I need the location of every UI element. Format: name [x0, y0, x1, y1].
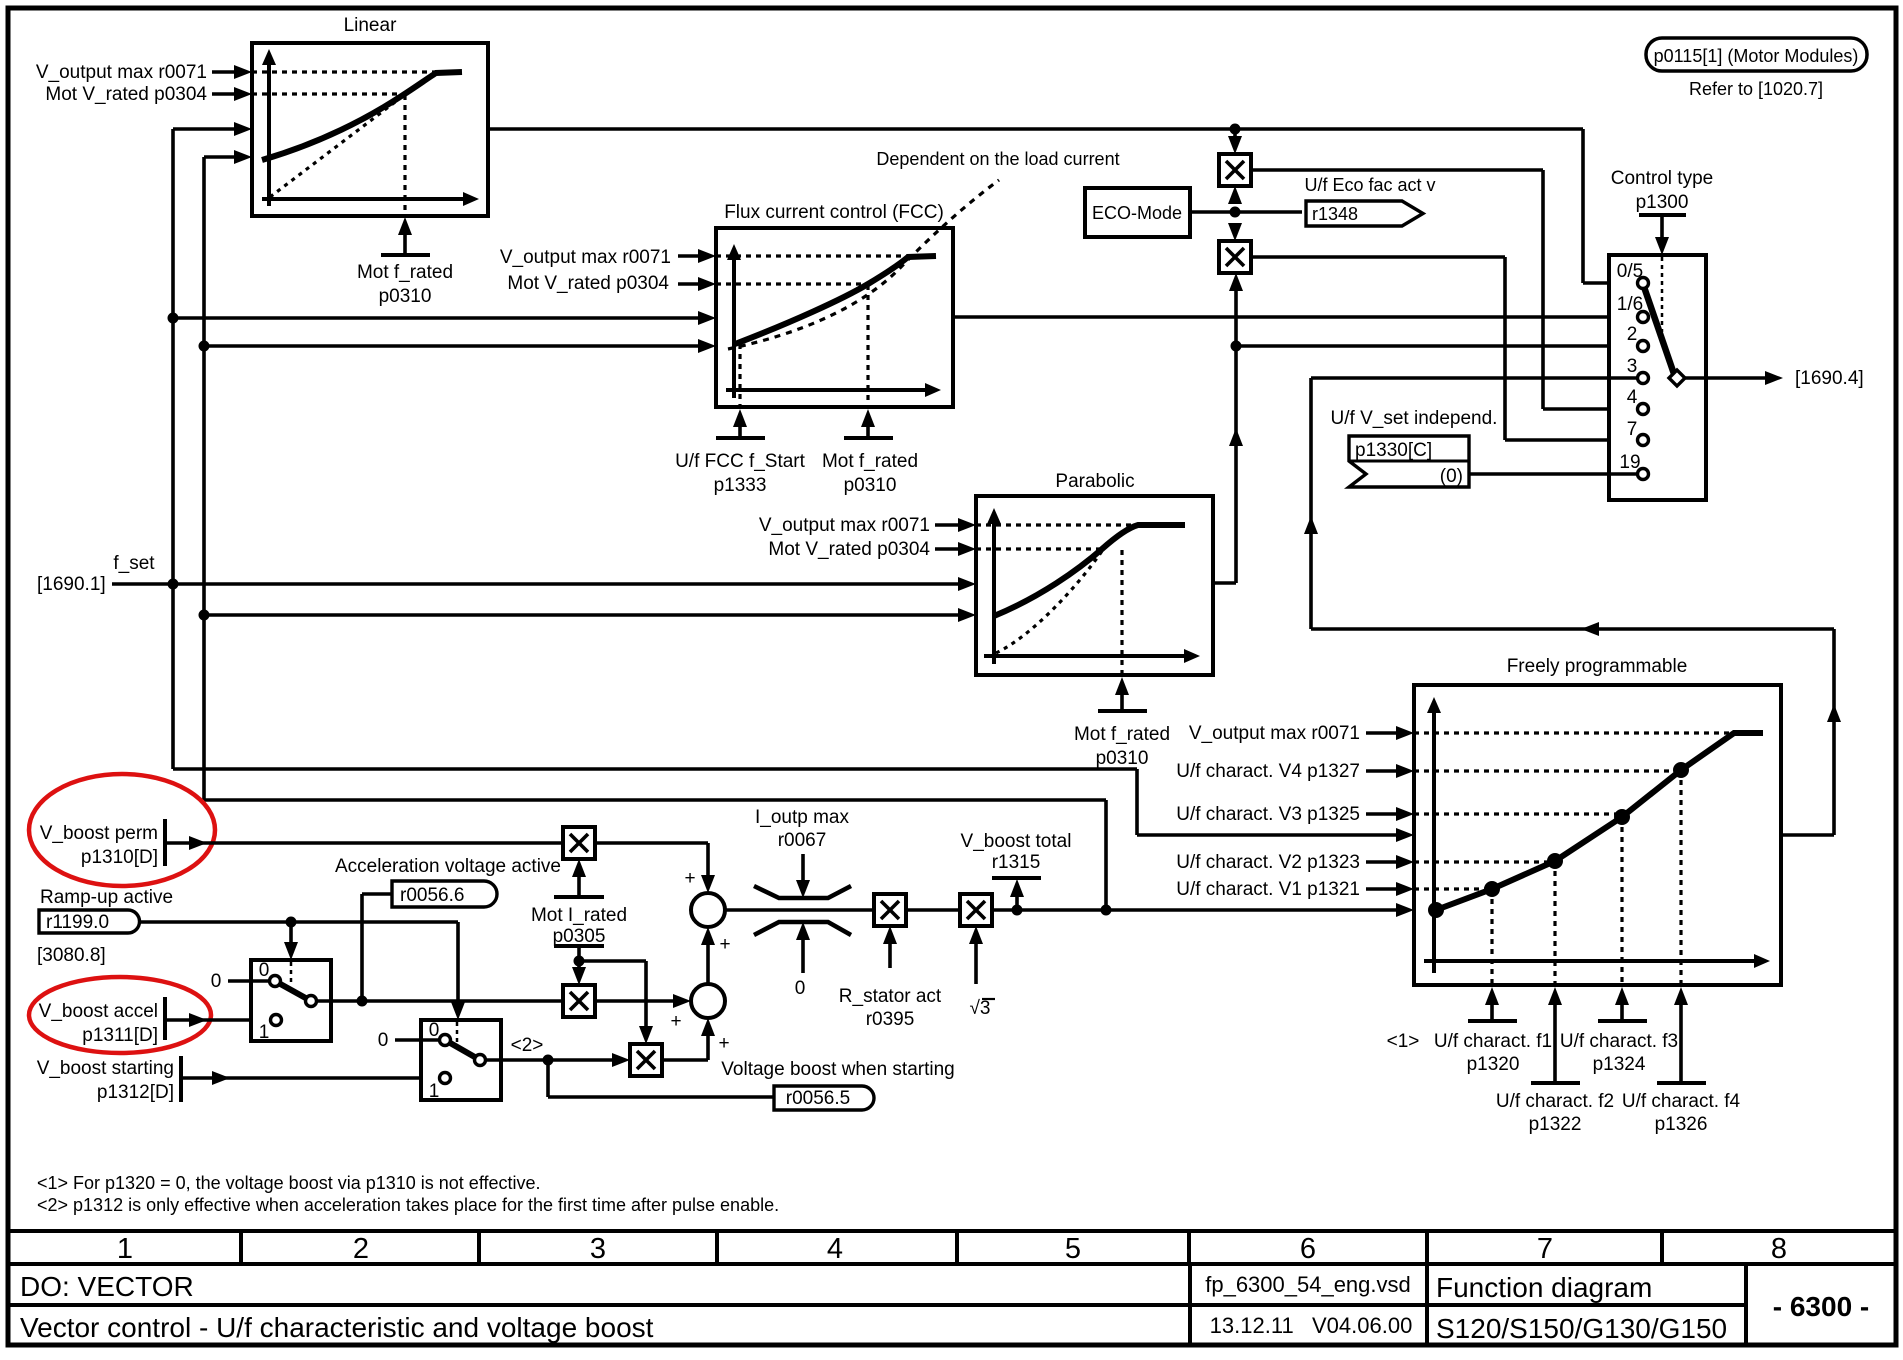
svg-text:r0056.6: r0056.6	[400, 885, 464, 906]
svg-text:U/f FCC f_Start: U/f FCC f_Start	[675, 451, 806, 472]
switch lever	[1643, 284, 1674, 374]
svg-text:Dependent on the load current: Dependent on the load current	[876, 149, 1119, 169]
Parabolic x-axis	[984, 654, 1187, 658]
svg-text:Mot f_rated: Mot f_rated	[822, 451, 918, 472]
svg-text:0: 0	[795, 978, 806, 999]
parameter Mot f_rated p0310 under FCC	[861, 409, 875, 427]
junction bus1 with f_set line	[168, 579, 178, 589]
parameter U/f FCC f_Start p1333	[733, 409, 747, 427]
wire V_boost total output	[906, 908, 960, 912]
svg-text:p1312[D]: p1312[D]	[97, 1082, 174, 1103]
svg-text:Mot V_rated p0304: Mot V_rated p0304	[45, 84, 207, 105]
svg-text:U/f charact. V4 p1327: U/f charact. V4 p1327	[1176, 761, 1360, 782]
svg-text:U/f charact. V2 p1323: U/f charact. V2 p1323	[1176, 852, 1360, 873]
svg-text:p1320: p1320	[1467, 1054, 1520, 1075]
FCC solid curve	[735, 256, 936, 344]
multiplier U2 (FCC x Eco)	[1219, 241, 1251, 273]
svg-text:r1199.0: r1199.0	[46, 912, 109, 933]
Parabolic dashed level p0304	[976, 547, 1100, 550]
parameter U/f charact. f1 p1320	[1485, 987, 1499, 1005]
svg-text:Mot f_rated: Mot f_rated	[1074, 724, 1170, 745]
wire ECO-Mode node	[1190, 210, 1302, 214]
svg-text:r1348: r1348	[1312, 204, 1358, 224]
svg-text:U/f V_set independ.: U/f V_set independ.	[1331, 408, 1498, 429]
svg-text:p1324: p1324	[1593, 1054, 1646, 1075]
svg-text:Mot I_rated: Mot I_rated	[531, 905, 627, 926]
svg-text:3: 3	[1627, 356, 1638, 377]
svg-text:4: 4	[827, 1233, 843, 1265]
svg-text:<1> For p1320 = 0, the voltage: <1> For p1320 = 0, the voltage boost via…	[37, 1173, 541, 1193]
junction bus1 to FCC	[168, 313, 178, 323]
svg-text:Ramp-up active: Ramp-up active	[40, 887, 173, 908]
wire bus2 down to V_boost output wire	[204, 798, 1106, 802]
wire bus1 to freely programmable input	[173, 767, 1137, 771]
junction bus2 to FCC	[199, 341, 209, 351]
Parabolic solid curve	[994, 525, 1185, 616]
svg-text:V_output max r0071: V_output max r0071	[1189, 723, 1360, 744]
svg-text:Mot V_rated p0304: Mot V_rated p0304	[507, 273, 669, 294]
svg-text:p1311[D]: p1311[D]	[82, 1025, 158, 1046]
svg-text:r0067: r0067	[778, 830, 827, 851]
svg-text:Acceleration voltage active: Acceleration voltage active	[335, 856, 561, 877]
S1 lever	[275, 981, 311, 1001]
svg-text:U/f Eco fac act v: U/f Eco fac act v	[1304, 175, 1435, 195]
Linear x-axis	[262, 197, 466, 201]
svg-text:p0310: p0310	[379, 286, 432, 307]
wire summer2 to summer1	[706, 943, 710, 984]
svg-text:[1690.4]: [1690.4]	[1795, 368, 1864, 389]
svg-text:0: 0	[429, 1020, 440, 1041]
parameter U/f charact. f3 p1324	[1615, 987, 1629, 1005]
svg-text:Voltage boost when starting: Voltage boost when starting	[721, 1059, 954, 1080]
multiplier X_R (R_stator act)	[874, 894, 906, 926]
svg-text:0: 0	[259, 960, 270, 981]
wire freely prog output feedback to switch contact 3	[1781, 833, 1834, 837]
FCC dashed level r0071	[716, 254, 907, 257]
wire bus2 to FCC input	[204, 344, 700, 348]
red highlight ellipse around V_boost perm	[29, 774, 215, 886]
svg-text:p0310: p0310	[1096, 748, 1149, 769]
Linear dashed vertical Mot f_rated	[403, 95, 406, 215]
svg-text:V_boost starting: V_boost starting	[37, 1058, 174, 1079]
parameter U/f charact. f2 p1322	[1548, 987, 1562, 1005]
wire p0305 to X_c	[579, 959, 646, 963]
wire bus1 f_set vertical distribution	[171, 129, 175, 769]
wire V_boost perm to multiplier	[165, 841, 563, 845]
svg-text:V_output max r0071: V_output max r0071	[36, 62, 207, 83]
wire V_boost starting to switch S2 input 1	[181, 1076, 440, 1080]
FCC dashed level p0304	[716, 282, 865, 285]
FCC x-axis	[726, 388, 928, 392]
wire S2 output	[486, 1058, 614, 1062]
svg-text:Refer to [1020.7]: Refer to [1020.7]	[1689, 79, 1823, 99]
svg-text:Mot V_rated p0304: Mot V_rated p0304	[768, 539, 930, 560]
svg-text:p1333: p1333	[714, 475, 767, 496]
svg-text:U/f charact. f4: U/f charact. f4	[1622, 1091, 1741, 1112]
parameter Mot I_rated p0305	[572, 859, 586, 877]
wire second line to Parabolic input	[204, 613, 960, 617]
svg-text:f_set: f_set	[113, 553, 155, 574]
svg-text:1: 1	[117, 1233, 133, 1265]
svg-text:U/f charact. f2: U/f charact. f2	[1496, 1091, 1614, 1112]
svg-text:+: +	[670, 1011, 681, 1032]
svg-text:Freely programmable: Freely programmable	[1507, 656, 1688, 677]
svg-text:Function diagram: Function diagram	[1436, 1272, 1652, 1303]
wire switch output to [1690.4]	[1685, 376, 1767, 380]
S2 lever	[445, 1040, 480, 1060]
svg-text:Vector control - U/f character: Vector control - U/f characteristic and …	[20, 1312, 654, 1343]
svg-text:p1300: p1300	[1636, 192, 1689, 213]
Parabolic dashed level r0071	[976, 523, 1137, 526]
svg-text:7: 7	[1627, 419, 1638, 440]
svg-text:- 6300 -: - 6300 -	[1773, 1291, 1870, 1322]
svg-text:fp_6300_54_eng.vsd: fp_6300_54_eng.vsd	[1205, 1272, 1411, 1297]
wire U2 output to switch contact 7 via corner	[1251, 255, 1505, 259]
svg-text:6: 6	[1300, 1233, 1316, 1265]
svg-text:0: 0	[211, 971, 222, 992]
svg-text:I_outp max: I_outp max	[755, 807, 849, 828]
Linear y-axis	[267, 63, 271, 206]
wire summer1 output through limiter	[725, 908, 874, 912]
red highlight ellipse around V_boost accel	[29, 977, 211, 1053]
svg-text:DO: VECTOR: DO: VECTOR	[20, 1271, 194, 1302]
multiplier X_b (S1 out x I_rated)	[563, 985, 595, 1017]
freely prog y-axis	[1432, 711, 1436, 973]
Parabolic y-axis	[992, 522, 996, 664]
svg-text:U/f charact. f3: U/f charact. f3	[1560, 1031, 1678, 1052]
multiplier U1 (Linear x Eco)	[1233, 129, 1237, 138]
svg-text:p1326: p1326	[1655, 1114, 1708, 1135]
junction Parabolic output to switch contact 2	[1231, 341, 1241, 351]
switch S1 (ramp-up select)	[251, 960, 331, 1041]
svg-text:p0310: p0310	[844, 475, 897, 496]
svg-text:r0056.5: r0056.5	[786, 1088, 850, 1109]
Linear dashed level V_output max	[252, 70, 437, 73]
FCC y-axis	[732, 258, 736, 398]
svg-text:U/f charact. V3 p1325: U/f charact. V3 p1325	[1176, 804, 1360, 825]
svg-text:4: 4	[1627, 387, 1638, 408]
Linear dashed level Mot V_rated	[252, 92, 403, 95]
summing junction S_sum2	[691, 984, 725, 1018]
wire f_set to Parabolic input	[112, 582, 960, 586]
FCC dashed vertical p0310	[866, 285, 869, 405]
svg-text:p1310[D]: p1310[D]	[81, 847, 158, 868]
svg-text:Control type: Control type	[1611, 168, 1713, 189]
svg-text:p0115[1] (Motor Modules): p0115[1] (Motor Modules)	[1654, 46, 1859, 66]
svg-text:8: 8	[1771, 1233, 1787, 1265]
svg-text:V_boost total: V_boost total	[961, 831, 1072, 852]
Parabolic dashed vertical	[1120, 550, 1123, 674]
svg-text:0: 0	[378, 1030, 389, 1051]
wire X_a output to summer	[595, 841, 708, 845]
wire to r0056.6	[360, 894, 364, 1001]
svg-text:p0305: p0305	[553, 926, 606, 947]
svg-text:V_boost accel: V_boost accel	[39, 1001, 158, 1022]
box ECO-Mode	[1085, 188, 1190, 237]
limiter I_outp max	[754, 886, 851, 898]
svg-text:V_output max r0071: V_output max r0071	[500, 247, 671, 268]
wire to r0056.5	[546, 1060, 550, 1097]
output V_boost total r1315	[1015, 895, 1019, 910]
wire bus1 to FCC input	[173, 316, 700, 320]
wire X_b output to summer2	[595, 999, 675, 1003]
svg-text:V_output max r0071: V_output max r0071	[759, 515, 930, 536]
svg-text:[1690.1]: [1690.1]	[37, 574, 106, 595]
svg-text:(0): (0)	[1440, 466, 1463, 487]
binector r1199.0	[39, 910, 140, 933]
svg-text:U/f charact. V1 p1321: U/f charact. V1 p1321	[1176, 879, 1360, 900]
svg-text:p1330[C]: p1330[C]	[1355, 440, 1432, 461]
svg-text:+: +	[684, 868, 695, 889]
Linear dotted diagonal	[270, 96, 403, 197]
svg-text:1: 1	[259, 1022, 270, 1043]
multiplier X_c (S2 out x I_rated)	[630, 1044, 662, 1076]
svg-text:r1315: r1315	[992, 852, 1041, 873]
freely prog curve	[1436, 733, 1763, 910]
FCC dashed vertical p1333	[738, 344, 741, 405]
Parabolic dotted curve	[996, 551, 1102, 653]
reference p0115[1] (Motor Modules)	[1646, 38, 1867, 71]
junction on Linear output feeding multiplier	[1230, 124, 1240, 134]
multiplier X_a (V_boost perm x I_rated)	[563, 827, 595, 859]
svg-text:1: 1	[429, 1081, 440, 1102]
wire U1 output to switch contact 0/5 via corner	[1251, 168, 1543, 172]
Linear characteristic curve	[262, 72, 462, 160]
dashed levels inside freely prog	[1414, 731, 1734, 734]
svg-text:V_boost perm: V_boost perm	[40, 823, 158, 844]
wire Parabolic output up to multiplier X2	[1213, 581, 1236, 585]
freely prog x-axis	[1424, 959, 1757, 963]
parameter U/f charact. f4 p1326	[1674, 987, 1688, 1005]
svg-text:3: 3	[590, 1233, 606, 1265]
svg-text:+: +	[718, 1033, 729, 1054]
svg-text:√3: √3	[970, 998, 991, 1019]
svg-text:U/f charact. f1: U/f charact. f1	[1434, 1031, 1552, 1052]
svg-text:13.12.11 V04.06.00: 13.12.11 V04.06.00	[1210, 1313, 1413, 1338]
svg-text:[3080.8]: [3080.8]	[37, 945, 106, 966]
multiplier X_sqrt3	[960, 894, 992, 926]
svg-text:5: 5	[1065, 1233, 1081, 1265]
wire r1199.0 to switches	[139, 920, 458, 924]
svg-text:7: 7	[1537, 1233, 1553, 1265]
switch contacts	[1638, 278, 1649, 289]
svg-text:2: 2	[353, 1233, 369, 1265]
summing junction S_sum1	[691, 893, 725, 927]
svg-text:p1322: p1322	[1529, 1114, 1582, 1135]
svg-text:Flux current control (FCC): Flux current control (FCC)	[724, 202, 944, 223]
svg-text:Mot f_rated: Mot f_rated	[357, 262, 453, 283]
svg-text:<2>: <2>	[511, 1035, 544, 1056]
svg-text:2: 2	[1627, 324, 1638, 345]
switch S2 (starting boost select)	[421, 1020, 501, 1100]
wire S1 output	[317, 999, 563, 1003]
parameter Mot f_rated p0310 under Linear	[398, 217, 412, 235]
svg-text:+: +	[719, 934, 730, 955]
wire X_c output to summer2	[662, 1058, 708, 1062]
wire bus2 vertical distribution	[202, 157, 206, 800]
svg-text:Parabolic: Parabolic	[1055, 471, 1134, 492]
svg-text:S120/S150/G130/G150: S120/S150/G130/G150	[1436, 1313, 1727, 1344]
svg-text:<1>: <1>	[1387, 1031, 1420, 1052]
svg-text:r0395: r0395	[866, 1009, 915, 1030]
wire p1330 to switch contact 19	[1469, 472, 1637, 476]
junction bus2 with line to Parabolic	[199, 610, 209, 620]
wire to switch contact 2	[1236, 344, 1637, 348]
wire V_boost accel to switch S1 input 1	[165, 1018, 271, 1022]
wire FCC output to switch contact 1/6	[953, 315, 1637, 319]
parameter Mot f_rated p0310 under Parabolic	[1115, 677, 1129, 695]
dashed verticals f1..f4	[1490, 889, 1493, 983]
wire Linear output to control-type switch contact 0/5	[488, 127, 1583, 131]
svg-text:Linear: Linear	[344, 15, 397, 36]
svg-text:<2> p1312 is only effective wh: <2> p1312 is only effective when acceler…	[37, 1195, 779, 1215]
FCC dashed load-current curve	[728, 180, 999, 349]
svg-text:R_stator act: R_stator act	[839, 986, 942, 1007]
svg-text:ECO-Mode: ECO-Mode	[1092, 203, 1182, 223]
title block table	[8, 1229, 1896, 1233]
